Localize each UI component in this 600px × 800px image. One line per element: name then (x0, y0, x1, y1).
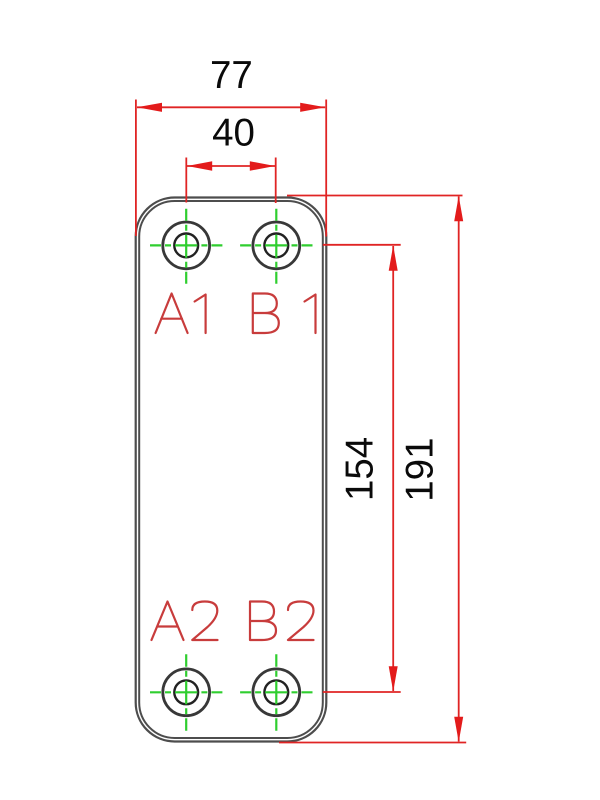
dimension 154 arrow top (389, 246, 398, 271)
label A1 (156, 294, 206, 334)
dimension 77 text (210, 54, 253, 97)
dimension 40 arrow right (250, 161, 275, 171)
dimension 191 extension line top (287, 195, 463, 197)
svg-text:77: 77 (210, 54, 253, 97)
dimension 191 arrow top (454, 196, 463, 221)
label A2 (152, 602, 218, 641)
plate inner outline (139, 201, 323, 738)
dimension 40 text (212, 112, 255, 155)
dimension 154 line (392, 246, 394, 691)
port A1 circles (163, 222, 210, 269)
label B2 (250, 602, 314, 641)
plate outer outline (136, 198, 327, 742)
centerline crosshair A1 (150, 209, 222, 284)
dimension 154 extension line bottom (323, 691, 401, 693)
svg-text:154: 154 (338, 437, 381, 501)
port A2 circles (163, 669, 210, 716)
dimension 40 extension line right (275, 158, 277, 204)
dimension 77 extension line left (135, 100, 137, 237)
dimension 77 line (137, 106, 325, 108)
dimension 154 extension line top (323, 244, 401, 246)
centerline crosshair A2 (150, 654, 222, 731)
svg-text:40: 40 (212, 112, 255, 155)
port B2 circles (253, 669, 300, 716)
dimension 154 text (338, 437, 381, 501)
dimension 191 text (399, 437, 442, 501)
dimension 191 arrow bottom (454, 717, 463, 742)
dimension 40 extension line left (185, 158, 187, 203)
dimension 191 line (458, 197, 460, 742)
svg-text:191: 191 (399, 437, 442, 501)
centerline crosshair B2 (240, 654, 312, 731)
dimension 77 arrow left (137, 103, 162, 112)
port B1 circles (253, 222, 300, 269)
dimension 77 extension line right (325, 100, 327, 237)
dimension 77 arrow right (300, 103, 325, 112)
dimension 40 line (187, 165, 275, 167)
centerline crosshair B1 (240, 209, 312, 284)
dimension 191 extension line bottom (279, 742, 466, 744)
label B1 (253, 294, 316, 334)
dimension 40 arrow left (187, 161, 212, 171)
dimension 154 arrow bottom (389, 666, 398, 691)
